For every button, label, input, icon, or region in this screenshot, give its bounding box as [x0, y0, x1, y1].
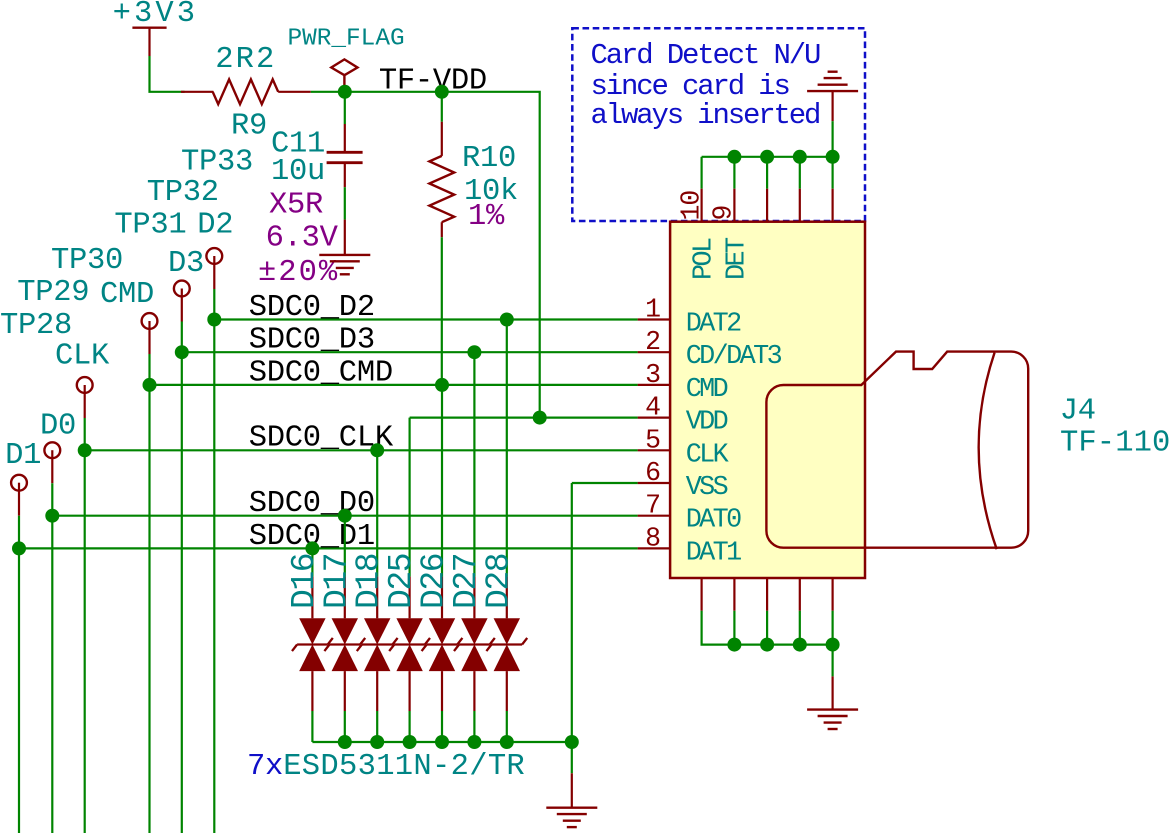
svg-text:±20%: ±20% — [258, 256, 339, 290]
test point TP28 D1 — [0, 309, 72, 833]
test point TP29 CMD — [17, 276, 157, 833]
svg-text:4: 4 — [645, 393, 660, 423]
junction node at R10 top — [435, 85, 449, 99]
pin 3 CMD — [638, 360, 728, 405]
wire C11 to ground — [344, 187, 346, 219]
power flag PWR_FLAG — [288, 26, 405, 89]
power symbol +3V3 — [113, 0, 199, 56]
pin 5 CLK — [638, 425, 730, 470]
wire SDC0_D3 row — [182, 351, 638, 353]
diode D25 ESD TVS — [383, 418, 430, 742]
svg-text:2R2: 2R2 — [215, 43, 276, 77]
junction nodes on bottom bus — [727, 638, 839, 652]
wire R9 to TF-VDD corner — [311, 92, 540, 418]
wire top bus — [702, 156, 833, 158]
wire ground to top bus — [831, 121, 833, 157]
svg-text:9: 9 — [708, 206, 738, 221]
wire SDC0_CMD row — [150, 384, 638, 386]
svg-text:6.3V: 6.3V — [266, 222, 339, 256]
pin 8 DAT1 — [638, 523, 742, 568]
svg-text:1: 1 — [645, 295, 660, 325]
pin 2 CD/DAT3 — [638, 327, 782, 372]
junction nodes on top bus — [727, 150, 839, 164]
top mount pins — [767, 189, 833, 222]
svg-text:7: 7 — [645, 491, 660, 521]
svg-text:2: 2 — [645, 327, 660, 357]
svg-text:D28: D28 — [480, 554, 517, 609]
svg-text:CLK: CLK — [55, 340, 110, 374]
svg-text:J4: J4 — [1060, 394, 1096, 428]
svg-text:Card Detect N/U: Card Detect N/U — [591, 39, 821, 72]
svg-text:CLK: CLK — [686, 440, 730, 470]
svg-text:TP28: TP28 — [0, 309, 72, 343]
pin 6 VSS — [638, 458, 728, 503]
wire VDD row — [410, 417, 638, 419]
svg-text:D3: D3 — [168, 247, 204, 281]
junction node TF-VDD at VDD row — [533, 411, 547, 425]
ground below VSS bus — [546, 773, 597, 827]
svg-text:DAT2: DAT2 — [686, 310, 741, 340]
svg-text:CMD: CMD — [100, 278, 154, 312]
svg-text:DAT0: DAT0 — [686, 506, 741, 536]
wire SDC0_D0 row — [52, 515, 637, 517]
svg-text:CMD: CMD — [686, 375, 728, 405]
svg-text:10: 10 — [677, 191, 707, 221]
svg-text:D2: D2 — [197, 209, 233, 243]
diode D16 ESD TVS — [286, 541, 333, 742]
junction nodes on ESD bus — [338, 735, 579, 749]
bottom mount pins — [702, 578, 833, 611]
svg-text:7x: 7x — [247, 750, 283, 784]
svg-text:TP33: TP33 — [181, 146, 253, 180]
test point TP32 D0 — [40, 176, 219, 833]
svg-text:+3V3: +3V3 — [113, 0, 199, 31]
wire VSS row — [572, 482, 638, 484]
test point TP30 CLK — [51, 244, 123, 833]
svg-text:VSS: VSS — [686, 473, 728, 503]
svg-text:10u: 10u — [271, 155, 325, 189]
capacitor C11 10u X5R 6.3V ±20% — [258, 124, 363, 290]
pin 7 DAT0 — [638, 491, 742, 536]
test point TP33 D2 — [181, 146, 253, 833]
resistor R9 — [181, 43, 311, 144]
resistor R10 10k 1% — [429, 122, 518, 237]
wire TF-VDD to R10 — [441, 92, 443, 122]
wire ESD bus — [312, 741, 571, 743]
ground below C11 — [319, 220, 370, 275]
svg-text:CD/DAT3: CD/DAT3 — [686, 342, 782, 372]
svg-text:8: 8 — [645, 523, 660, 553]
wire VSS column to ESD bus — [571, 483, 573, 773]
svg-text:SDC0_CMD: SDC0_CMD — [249, 356, 393, 390]
svg-text:SDC0_D2: SDC0_D2 — [249, 291, 375, 325]
test point TP31 D3 — [114, 209, 204, 833]
wire +3V3 to R9 — [150, 56, 185, 92]
svg-text:X5R: X5R — [269, 189, 323, 223]
wire to C11 — [344, 92, 346, 124]
svg-text:always inserted: always inserted — [591, 99, 820, 132]
diode D27 ESD TVS — [448, 345, 495, 742]
wire SDC0_D2 row — [214, 318, 637, 320]
svg-text:SDC0_D0: SDC0_D0 — [249, 487, 375, 521]
svg-text:1%: 1% — [468, 200, 505, 234]
connector J4 TF-110 body — [670, 222, 865, 578]
ground below connector — [807, 676, 858, 729]
svg-text:3: 3 — [645, 360, 660, 390]
wire SDC0_D1 row — [19, 547, 638, 549]
svg-text:TP30: TP30 — [51, 244, 123, 278]
svg-text:TP32: TP32 — [147, 176, 219, 210]
wire R10 to SDC0_CMD row — [441, 237, 443, 385]
pin 9 DET — [708, 189, 752, 280]
card drawing TF card outline — [766, 352, 1028, 550]
svg-text:SDC0_D3: SDC0_D3 — [249, 324, 375, 358]
svg-text:D1: D1 — [5, 439, 41, 473]
svg-text:6: 6 — [645, 458, 660, 488]
pin 1 DAT2 — [638, 295, 742, 340]
svg-text:DAT1: DAT1 — [686, 538, 741, 568]
svg-text:POL: POL — [689, 238, 719, 280]
svg-text:ESD5311N-2/TR: ESD5311N-2/TR — [283, 750, 525, 784]
svg-text:R9: R9 — [231, 110, 267, 144]
wire SDC0_CLK row — [85, 449, 638, 451]
ground above connector (in note box) — [807, 72, 858, 122]
svg-text:TF-VDD: TF-VDD — [379, 64, 487, 98]
wires bottom pins to bus — [702, 611, 833, 677]
svg-text:TP29: TP29 — [17, 276, 89, 310]
svg-text:5: 5 — [645, 425, 660, 455]
svg-text:PWR_FLAG: PWR_FLAG — [288, 26, 405, 53]
diode D28 ESD TVS — [480, 313, 527, 743]
svg-text:VDD: VDD — [686, 408, 728, 438]
junction node at C11 top — [338, 85, 352, 99]
pin 4 VDD — [638, 393, 728, 438]
diode D26 ESD TVS — [416, 378, 463, 742]
svg-text:TP31: TP31 — [114, 209, 186, 243]
svg-text:D0: D0 — [40, 409, 76, 443]
wire top pin stubs — [702, 157, 833, 189]
svg-text:R10: R10 — [462, 142, 516, 176]
pin 10 POL — [677, 189, 720, 280]
svg-text:TF-110: TF-110 — [1060, 427, 1170, 461]
diode D17 ESD TVS — [318, 509, 365, 742]
diode D18 ESD TVS — [351, 443, 398, 742]
svg-text:DET: DET — [722, 237, 752, 280]
note box card detect — [572, 28, 865, 221]
value label 7xESD5311N-2/TR — [247, 750, 525, 784]
